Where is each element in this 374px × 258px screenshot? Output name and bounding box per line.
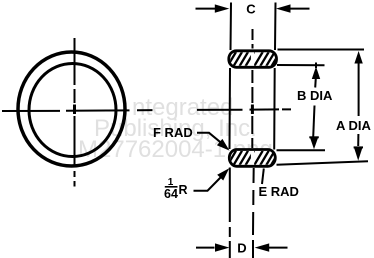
front view outer circle bbox=[18, 52, 125, 166]
D right extension line bbox=[252, 168, 255, 258]
A DIA arrow down bbox=[354, 148, 362, 161]
dimension C arrow left bbox=[215, 4, 230, 12]
svg-text:64: 64 bbox=[164, 187, 178, 201]
section right edge / extension line bbox=[274, 3, 275, 150]
A DIA arrow down crossbar bbox=[354, 146, 363, 148]
dimension D arrow right bbox=[255, 243, 270, 251]
B DIA upper shaft bbox=[314, 78, 317, 88]
front view inner circle bbox=[29, 64, 116, 157]
E RAD leader bbox=[262, 169, 264, 185]
B DIA bottom extension line bbox=[277, 149, 326, 151]
1/64 R arrowhead bbox=[217, 168, 229, 180]
svg-text:D: D bbox=[237, 241, 246, 256]
A DIA lower shaft bbox=[357, 134, 359, 146]
A DIA bottom extension line bbox=[277, 161, 369, 165]
1/64 R fraction bar bbox=[165, 186, 178, 188]
bottom cross-section hatching bbox=[228, 151, 280, 165]
svg-text:B DIA: B DIA bbox=[297, 88, 333, 103]
dimension D line left bbox=[196, 247, 215, 249]
B DIA arrow up bbox=[312, 67, 320, 80]
dimension D arrow left bbox=[215, 243, 229, 251]
B DIA arrow down crossbar bbox=[309, 136, 319, 138]
top cross-section hatching bbox=[228, 52, 281, 66]
1/64 R leader bbox=[194, 177, 222, 191]
svg-text:R: R bbox=[179, 183, 188, 197]
F RAD arrowhead bbox=[217, 139, 230, 151]
horizontal centerline bbox=[2, 109, 291, 111]
B DIA arrow down bbox=[310, 137, 318, 149]
front view vertical centerline bbox=[74, 38, 76, 187]
dimension C line left bbox=[196, 8, 216, 10]
dimension C arrow right bbox=[276, 4, 291, 12]
bottom cross-section outline bbox=[229, 150, 275, 167]
svg-text:F RAD: F RAD bbox=[153, 125, 193, 140]
B DIA arrow tip tick bbox=[315, 63, 317, 69]
svg-text:A DIA: A DIA bbox=[336, 118, 372, 133]
svg-text:C: C bbox=[246, 2, 256, 17]
svg-text:E RAD: E RAD bbox=[259, 184, 299, 199]
section center cross dash bbox=[251, 105, 254, 115]
B DIA top extension line bbox=[277, 64, 325, 66]
F RAD leader bbox=[197, 133, 222, 144]
section vertical centerline bbox=[251, 29, 253, 148]
dimension D line right bbox=[269, 247, 288, 249]
A DIA upper shaft bbox=[358, 63, 360, 116]
dimension C line right bbox=[290, 8, 310, 10]
B DIA lower shaft bbox=[313, 106, 314, 138]
front view center cross dash bbox=[73, 105, 76, 115]
A DIA top extension line bbox=[278, 49, 365, 51]
section left edge / extension line bbox=[230, 3, 232, 258]
A DIA arrow up bbox=[354, 51, 362, 64]
top cross-section outline bbox=[229, 51, 277, 68]
